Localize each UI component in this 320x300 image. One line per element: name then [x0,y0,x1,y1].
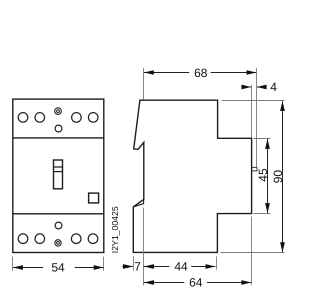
dimension 45 [256,139,270,213]
top terminal screw 1 [18,113,28,123]
dimension 4 [241,80,277,94]
indicator square [89,193,99,203]
extension line front box left (54) [12,257,14,271]
top center double circle [55,108,62,115]
svg-text:I2Y1_00425: I2Y1_00425 [110,206,120,253]
bottom center double circle [55,240,61,246]
top terminal screw 2 [35,113,45,123]
dimension 68 [144,66,257,80]
bottom terminal screw 1 [18,234,28,244]
bottom terminal screw 2 [35,234,45,244]
drawing code I2Y1_00425 [110,206,120,253]
svg-text:64: 64 [189,276,203,290]
extension line rear overall (68/4) [256,68,258,167]
dimension 7 [122,260,141,274]
svg-text:54: 54 [51,261,65,275]
bottom terminal screw 4 [88,234,98,244]
switch actuator [54,160,63,189]
front view outline [13,99,104,252]
svg-text:44: 44 [174,260,188,274]
extension line upper step (45) [254,138,271,140]
extension line front face bottom (44/64) [143,208,145,286]
dimension 90 [271,101,285,252]
top terminal screw 4 [88,113,98,123]
extension line bottom step (44) [216,256,218,269]
svg-text:90: 90 [271,170,285,184]
front view bottom section divider [13,213,104,215]
svg-text:4: 4 [270,80,277,94]
top terminal screw 3 [72,113,82,123]
extension line front face top (68) [143,68,145,100]
DIN clip wedge tab [133,200,143,207]
extension line rail face (7) [133,256,135,270]
extension line right face (4) [251,85,253,138]
svg-text:45: 45 [256,168,270,182]
extension line bottom edge (90) [221,252,285,254]
dimension 64 [144,276,252,290]
extension line rear bottom (64) [251,217,253,286]
svg-text:7: 7 [134,260,141,274]
right face small tab [252,167,257,171]
front view top section divider [13,137,104,139]
dimension 44 [144,260,216,274]
extension line front box right (54) [103,257,105,271]
bottom small circle [55,222,62,229]
side view profile outline [133,100,251,252]
extension line top edge (90) [222,100,285,102]
extension line lower step (45) [254,213,271,215]
dimension 54 [13,261,104,275]
svg-text:68: 68 [194,66,208,80]
top small circle [55,125,62,132]
bottom terminal screw 3 [71,234,81,244]
